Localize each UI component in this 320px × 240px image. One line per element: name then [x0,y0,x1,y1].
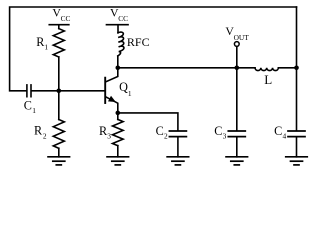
wire C2 to ground [177,137,179,157]
terminal Vout open circle [234,42,239,47]
wire feedback loop: left side and top [10,7,297,91]
svg-text:C: C [214,124,222,138]
wire R1 to base node [58,57,60,91]
svg-text:R: R [34,124,43,138]
svg-text:C: C [156,124,164,138]
svg-text:C: C [24,98,32,112]
resistor R3 [113,119,124,145]
wire L to right side [278,67,296,69]
svg-text:2: 2 [164,132,168,141]
svg-text:1: 1 [44,42,48,51]
wire emitter node to C2 [118,113,178,130]
wire Vcc1 to R1 [58,26,60,29]
wire R3 to ground [117,146,119,157]
resistor R2 [53,120,64,149]
node emitter junction [116,111,121,116]
inductor L [255,68,278,71]
capacitor C1 [27,85,31,97]
svg-text:4: 4 [283,132,287,141]
svg-text:RFC: RFC [127,35,150,49]
ground under C2 [167,157,189,165]
wire Vout terminal down through node to C3 [236,46,238,130]
power Vcc terminal 2 [107,24,129,26]
node Vout junction [235,66,240,71]
wire R2 to ground [58,148,60,157]
wire base node to R2 [58,91,60,120]
svg-text:Q: Q [119,80,128,94]
svg-text:L: L [264,72,272,87]
capacitor C2 [169,131,186,137]
svg-text:2: 2 [43,131,47,140]
capacitor C3 [228,131,245,137]
wire C3 to ground [236,137,238,157]
wire Vcc2 to RFC [117,26,119,33]
node base junction [57,89,62,94]
node right junction [294,66,299,71]
wire base: C1 to Q1 base [32,90,105,92]
resistor R1 [53,29,64,57]
wire RFC to collector node [117,56,119,68]
wire output: collector node to L [118,67,255,69]
svg-text:1: 1 [128,89,132,98]
svg-text:3: 3 [223,132,227,141]
wire right side from top down to C4 [296,7,298,130]
wire C4 to ground [296,137,298,157]
capacitor C4 [288,131,305,137]
ground under C3 [226,157,248,165]
svg-text:C: C [274,124,282,138]
inductor RFC [118,32,124,56]
transistor Q1 [105,68,118,113]
ground under C4 [286,157,308,165]
svg-text:OUT: OUT [234,33,250,42]
node collector junction [116,66,121,71]
ground under R2 [48,157,70,165]
power Vcc terminal 1 [49,24,69,26]
svg-text:CC: CC [61,14,71,23]
svg-text:1: 1 [32,106,36,115]
wire emitter to R3 [117,113,119,120]
svg-text:3: 3 [107,132,111,141]
svg-text:CC: CC [118,14,128,23]
ground under R3 [107,157,129,165]
